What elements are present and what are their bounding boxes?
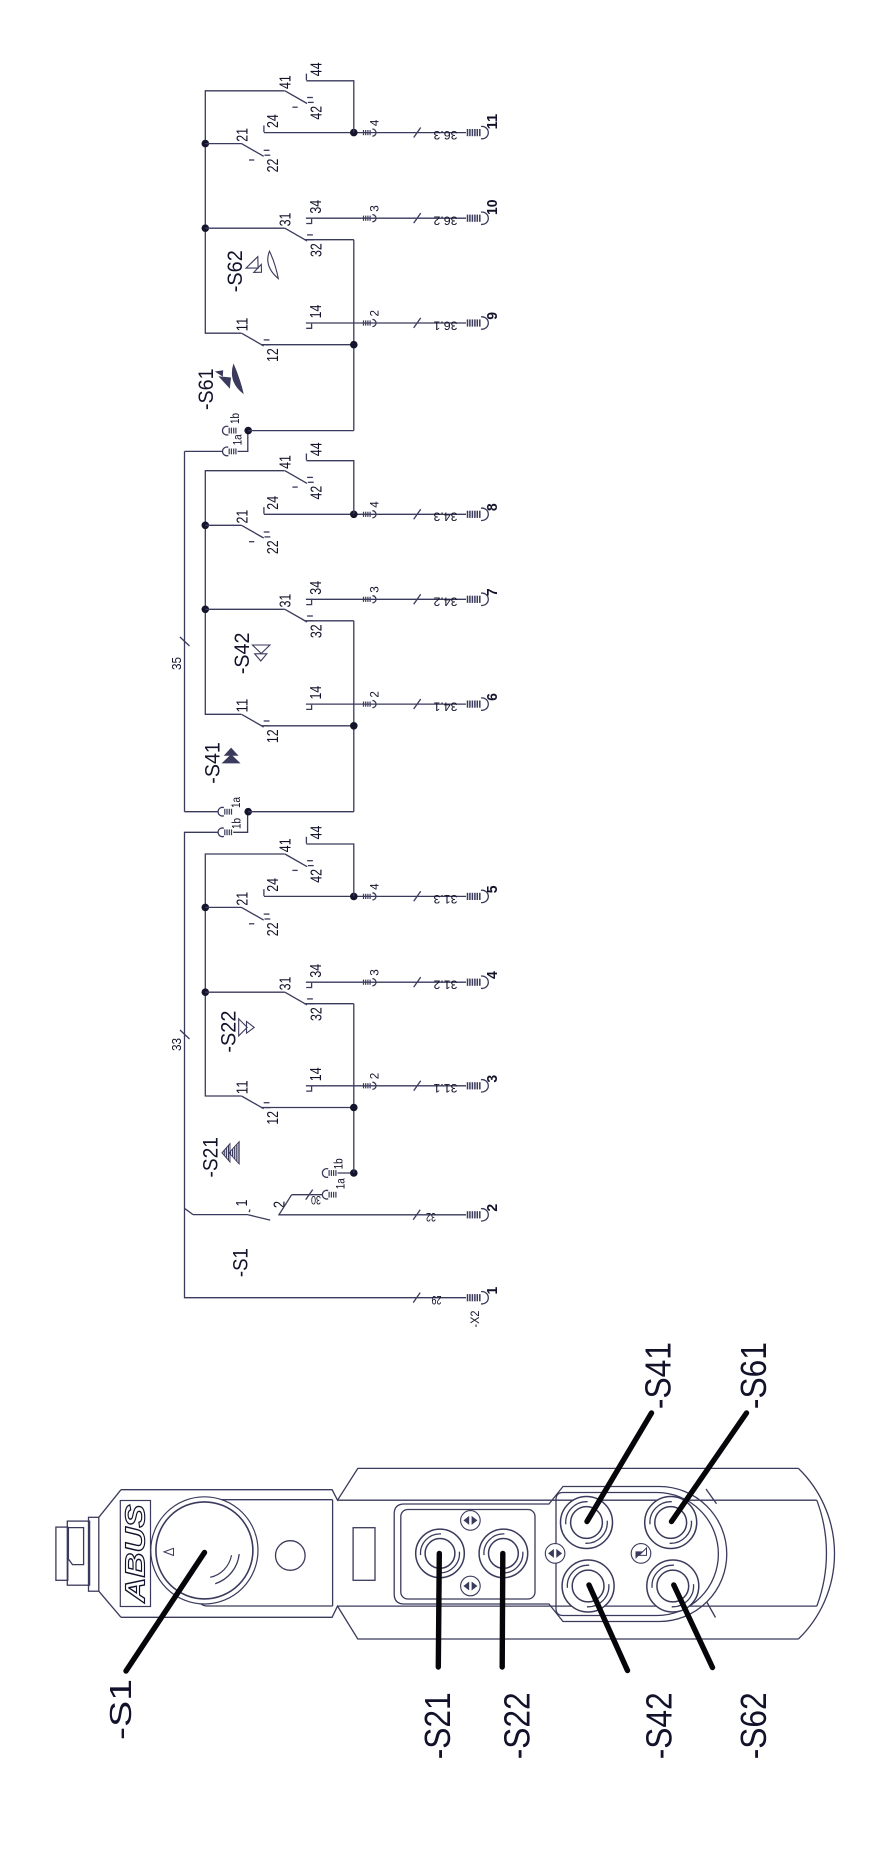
svg-text:3: 3 [368, 969, 382, 976]
terminal X2:4 [468, 976, 489, 988]
svg-text:6: 6 [485, 693, 501, 701]
svg-text:-S21: -S21 [417, 1692, 458, 1759]
leader -S62 [674, 1585, 713, 1668]
branch bus [205, 91, 284, 333]
node cluster3 [244, 427, 252, 435]
wire drop to pin 31 [205, 991, 285, 993]
pin 34 hook [306, 600, 311, 605]
wire break slash [413, 1210, 420, 1220]
wire break slash [306, 1190, 313, 1200]
connector pin 4 [364, 893, 376, 900]
connector 1a cluster3 [222, 447, 235, 456]
svg-text:1a: 1a [233, 434, 245, 446]
svg-text:12: 12 [265, 1111, 282, 1125]
wire cluster3 to rail [248, 430, 354, 432]
connector pin 2 [364, 1082, 376, 1089]
wire break slash [414, 594, 421, 604]
svg-text:-S41: -S41 [637, 1342, 678, 1409]
svg-text:21: 21 [234, 510, 251, 524]
contact ticks 42 [292, 477, 313, 487]
wire 35 [184, 451, 186, 811]
slash wire 33 [180, 1030, 190, 1039]
svg-text:1a: 1a [336, 1178, 348, 1190]
svg-text:3: 3 [368, 205, 382, 212]
svg-text:-X2: -X2 [470, 1311, 482, 1328]
collector rail [353, 621, 355, 812]
pin 14 hook [306, 324, 311, 329]
terminal X2:3 [468, 1080, 489, 1092]
svg-text:2: 2 [368, 1072, 382, 1079]
wire 12-output [261, 1107, 354, 1109]
terminal X2:1 [468, 1292, 489, 1304]
S1 pin1 tick [248, 1210, 251, 1213]
node cluster2 [244, 808, 252, 816]
svg-text:4: 4 [368, 119, 382, 126]
collector rail [353, 1004, 355, 1173]
contact arm 11/12 [242, 714, 264, 727]
svg-text:9: 9 [485, 312, 501, 320]
pin 34 hook [306, 983, 311, 988]
svg-text:1a: 1a [231, 796, 243, 808]
wire break slash [414, 891, 421, 901]
node branch/31 [202, 224, 210, 232]
wire pin24 to terminal [264, 895, 466, 897]
contact arm 41/42 [285, 854, 307, 867]
svg-text:31.2: 31.2 [433, 978, 457, 992]
wire pin44 to rail [306, 81, 353, 133]
button S62 [647, 1560, 699, 1612]
connector pin 4 [364, 129, 377, 136]
terminal X2:9 [468, 317, 489, 329]
wire break slash [414, 699, 421, 709]
decal hoist 1 [461, 1511, 481, 1531]
contact arm 31/32 [285, 992, 307, 1005]
wire drop to pin 31 [205, 608, 285, 610]
svg-text:22: 22 [265, 922, 282, 936]
svg-text:32: 32 [308, 1007, 325, 1021]
button S61 [645, 1497, 697, 1549]
svg-text:-S1: -S1 [103, 1679, 138, 1740]
leader -S42 [589, 1585, 628, 1671]
wire drop to pin 21 [205, 524, 241, 526]
svg-text:36.2: 36.2 [433, 214, 457, 228]
svg-text:2: 2 [368, 691, 382, 698]
terminal X2:8 [468, 508, 489, 520]
svg-text:12: 12 [265, 348, 282, 362]
svg-text:24: 24 [265, 878, 282, 892]
connector pin 2 [364, 701, 377, 708]
wire 12-output [261, 344, 354, 346]
svg-text:22: 22 [265, 159, 282, 173]
symbol S22 hoist down [239, 1019, 255, 1036]
svg-text:31: 31 [278, 594, 295, 608]
decal trolley [545, 1544, 565, 1564]
svg-text:12: 12 [265, 729, 282, 743]
wire pin34 to terminal [306, 598, 466, 600]
svg-text:-S21: -S21 [200, 1137, 223, 1177]
symbol S61 slew [215, 370, 223, 376]
wire 12-output [261, 725, 354, 727]
button frame S21/S22 [401, 1510, 535, 1600]
svg-text:-S62: -S62 [733, 1692, 774, 1759]
svg-text:-S22: -S22 [497, 1692, 538, 1759]
svg-text:-S62: -S62 [224, 250, 247, 292]
terminal X2:10 [468, 212, 489, 224]
label window [353, 1528, 375, 1581]
contact ticks 42 [292, 98, 313, 108]
pin 24 tick [263, 889, 265, 896]
wire cluster2 to rail [248, 811, 354, 813]
wire 30 [292, 1194, 323, 1196]
svg-text:31: 31 [278, 977, 295, 991]
connector 1b [322, 1169, 336, 1178]
pin 14 hook [306, 705, 311, 710]
svg-text:4: 4 [368, 501, 382, 508]
svg-text:4: 4 [485, 971, 501, 979]
svg-text:31.1: 31.1 [433, 1081, 457, 1095]
svg-text:44: 44 [308, 442, 325, 456]
leader -S1 [126, 1553, 205, 1672]
svg-text:8: 8 [485, 503, 501, 511]
svg-text:34.1: 34.1 [433, 700, 457, 714]
svg-text:11: 11 [485, 114, 501, 130]
svg-text:-S42: -S42 [639, 1692, 680, 1759]
terminal X2:2 [468, 1209, 489, 1221]
contact ticks 22 [249, 532, 270, 542]
svg-text:31: 31 [278, 213, 295, 227]
terminal X2:6 [468, 698, 489, 710]
svg-text:21: 21 [234, 128, 251, 142]
estop panel [198, 1500, 333, 1606]
wire break slash [414, 213, 421, 223]
svg-text:34.3: 34.3 [433, 510, 457, 524]
wire pin14 to terminal [306, 322, 466, 324]
wire 32-output [305, 620, 354, 622]
symbol S41 travel right [223, 755, 240, 763]
svg-text:-S22: -S22 [218, 1011, 241, 1053]
svg-text:14: 14 [308, 305, 325, 319]
wire break slash [414, 977, 421, 987]
svg-text:34.2: 34.2 [433, 595, 457, 609]
svg-text:35: 35 [169, 657, 184, 670]
decal slew [631, 1544, 651, 1564]
pin 24 tick [263, 507, 265, 514]
contact ticks 42 [292, 861, 313, 871]
wire 1a elbow cluster3 [238, 431, 248, 452]
svg-text:2: 2 [485, 1204, 501, 1212]
svg-text:11: 11 [234, 318, 251, 332]
wire pin24 to terminal [264, 132, 466, 134]
contact arm 21/22 [242, 144, 264, 157]
node 1b/rail [350, 1169, 358, 1177]
wire pin34 to terminal [306, 217, 466, 219]
wire break slash [414, 1081, 421, 1091]
node branch/21 [202, 140, 210, 148]
button S22 [479, 1529, 528, 1578]
svg-text:44: 44 [308, 62, 325, 76]
pendant cable gland [56, 1517, 99, 1591]
contact ticks 22 [249, 150, 270, 160]
contact arm 21/22 [242, 907, 264, 920]
leader -S61 [672, 1413, 747, 1522]
svg-text:42: 42 [308, 486, 325, 500]
wire drop to pin 31 [205, 227, 285, 229]
svg-text:44: 44 [308, 826, 325, 840]
contact arm 41/42 [285, 471, 307, 484]
wire pin24 to terminal [264, 513, 466, 515]
wire break slash [414, 509, 421, 519]
connector pin 4 [364, 511, 377, 518]
branch chamfer to S1 [185, 1209, 193, 1215]
pin 34 hook [306, 219, 311, 224]
node rail/12 [350, 722, 358, 730]
svg-text:-S61: -S61 [733, 1342, 774, 1409]
pendant body outline [121, 1468, 835, 1639]
svg-text:24: 24 [265, 114, 282, 128]
contact arm 41/42 [285, 91, 307, 104]
svg-text:-S42: -S42 [231, 633, 254, 675]
wire pin14 to terminal [306, 703, 466, 705]
node rail/12 [350, 1104, 358, 1112]
svg-text:11: 11 [234, 1080, 251, 1094]
svg-text:3: 3 [485, 1075, 501, 1083]
wire 1b to rail [338, 1172, 354, 1174]
contact ticks 32 [307, 999, 314, 1004]
svg-text:3: 3 [368, 586, 382, 593]
button S21 [416, 1529, 465, 1578]
svg-text:36.3: 36.3 [433, 128, 457, 142]
node 24/44 [350, 893, 358, 901]
wire to S1 pin 1 [193, 1214, 248, 1216]
connector pin 2 [364, 319, 377, 326]
contact ticks 12 [264, 1103, 271, 1108]
symbol S42 travel left [252, 645, 270, 661]
svg-text:41: 41 [278, 455, 295, 469]
node 24/44 [350, 129, 358, 137]
svg-text:1b: 1b [230, 413, 242, 424]
wire 32-output [305, 1003, 354, 1005]
node 24/44 [350, 511, 358, 519]
svg-text:11: 11 [234, 699, 251, 713]
wire 1b elbow [233, 812, 247, 833]
slash wire 35 [180, 637, 190, 646]
contact arm 21/22 [242, 525, 264, 538]
wire 30 branch diagonal [279, 1195, 292, 1215]
svg-text:34: 34 [308, 964, 325, 978]
connector pin 3 [364, 596, 377, 603]
pin 44 tick [305, 837, 307, 844]
pendant body inner contour [338, 1489, 827, 1618]
pendant divider line [332, 1500, 334, 1606]
wire 32 S1 to terminal 2 [278, 1214, 466, 1216]
button S41 [561, 1497, 613, 1549]
connector pin 3 [364, 215, 377, 222]
wire drop to pin 21 [205, 906, 241, 908]
wire 29 feed line [185, 832, 467, 1297]
svg-text:-S1: -S1 [229, 1248, 252, 1277]
contact ticks 32 [307, 616, 314, 621]
emergency stop button S1 [151, 1497, 258, 1604]
contact arm S1 [248, 1215, 270, 1220]
contact arm 31/32 [285, 228, 307, 241]
leader -S41 [587, 1413, 652, 1522]
symbol S62 slew ccw [246, 257, 258, 269]
svg-text:42: 42 [308, 106, 325, 120]
connector pin 3 [364, 979, 376, 986]
symbol S21 hoist up [222, 1140, 240, 1166]
svg-text:34: 34 [308, 200, 325, 214]
svg-text:29: 29 [431, 1293, 441, 1307]
pin 44 tick [305, 454, 307, 461]
terminal X2:11 [468, 126, 489, 138]
svg-text:30: 30 [311, 1193, 321, 1207]
svg-text:42: 42 [308, 869, 325, 883]
svg-text:4: 4 [368, 883, 382, 890]
wire break slash [414, 318, 421, 328]
contact arm 11/12 [242, 333, 264, 346]
decal hoist 2 [461, 1576, 481, 1596]
svg-text:41: 41 [278, 75, 295, 89]
blank button [276, 1541, 306, 1571]
wire break slash [414, 128, 421, 138]
svg-text:1: 1 [485, 1287, 501, 1295]
contact ticks 32 [307, 235, 314, 240]
svg-text:ABUS: ABUS [120, 1504, 151, 1604]
button S42 [562, 1560, 614, 1612]
wire pin34 to terminal [306, 981, 466, 983]
contact ticks 12 [264, 721, 271, 726]
leader -S22 [500, 1553, 506, 1667]
button panel outline [394, 1487, 727, 1622]
wire pin44 to rail [306, 461, 353, 515]
connector 1b cluster2 [218, 828, 231, 837]
svg-text:31.3: 31.3 [433, 892, 457, 906]
terminal X2:7 [468, 593, 489, 605]
pin 24 tick [263, 125, 265, 132]
svg-text:1b: 1b [232, 818, 244, 829]
terminal X2:5 [468, 890, 489, 902]
button frame S41-S62 [556, 1493, 718, 1616]
svg-text:33: 33 [169, 1038, 184, 1051]
svg-text:32: 32 [308, 243, 325, 257]
node branch/21 [202, 522, 210, 530]
svg-text:7: 7 [485, 588, 501, 596]
wire drop to pin 21 [205, 143, 241, 145]
collector rail [353, 240, 355, 431]
pin 14 hook [306, 1086, 311, 1091]
svg-text:1b: 1b [334, 1158, 346, 1169]
svg-text:34: 34 [308, 581, 325, 595]
wire pin14 to terminal [306, 1085, 466, 1087]
svg-text:-S41: -S41 [202, 742, 225, 784]
contact arm 11/12 [242, 1096, 264, 1109]
pendant neck chamfers [99, 1490, 121, 1618]
wire 35 drop cluster2 [185, 811, 219, 813]
pin 44 tick [305, 74, 307, 81]
svg-text:22: 22 [265, 540, 282, 554]
svg-text:1: 1 [234, 1199, 251, 1206]
ABUS logo [120, 1501, 151, 1607]
svg-text:2: 2 [368, 310, 382, 317]
svg-text:5: 5 [485, 885, 501, 893]
wire pin44 to rail [306, 844, 353, 896]
connector 1a cluster2 [218, 807, 231, 816]
svg-text:21: 21 [234, 892, 251, 906]
branch bus [205, 471, 284, 715]
contact ticks 22 [249, 914, 270, 924]
svg-text:36.1: 36.1 [433, 318, 457, 332]
wire break slash [413, 1293, 420, 1303]
contact ticks 12 [264, 340, 271, 345]
node branch/31 [202, 606, 210, 614]
svg-text:41: 41 [278, 838, 295, 852]
svg-text:14: 14 [308, 1067, 325, 1081]
leader -S21 [438, 1553, 439, 1667]
svg-text:24: 24 [265, 496, 282, 510]
svg-text:-S61: -S61 [195, 369, 218, 411]
svg-text:32: 32 [426, 1210, 436, 1224]
connector 1b cluster3 [222, 426, 235, 435]
node branch/31 [202, 988, 210, 996]
svg-text:32: 32 [308, 624, 325, 638]
wire 35 drop cluster3 [185, 450, 223, 452]
node branch/21 [202, 904, 210, 912]
connector 1a [322, 1190, 336, 1199]
wire 32-output [305, 239, 354, 241]
contact arm 31/32 [285, 609, 307, 622]
node rail/12 [350, 341, 358, 349]
svg-text:14: 14 [308, 686, 325, 700]
svg-text:10: 10 [485, 199, 501, 215]
branch bus [205, 854, 284, 1096]
